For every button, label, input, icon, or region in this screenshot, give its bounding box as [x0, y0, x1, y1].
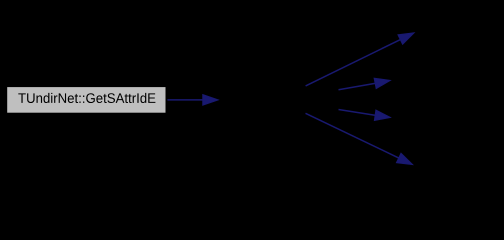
- edge: center to top-right hidden node: [306, 33, 415, 86]
- edge: center to upper-middle hidden node: [339, 78, 391, 90]
- edge: TUndirNet::GetSAttrIdE to hidden center node: [167, 94, 218, 105]
- node box TUndirNet::GetSAttrIdE: [7, 87, 165, 113]
- edge: center to bottom-right hidden node: [306, 113, 414, 165]
- edge: center to lower-middle hidden node: [339, 110, 391, 121]
